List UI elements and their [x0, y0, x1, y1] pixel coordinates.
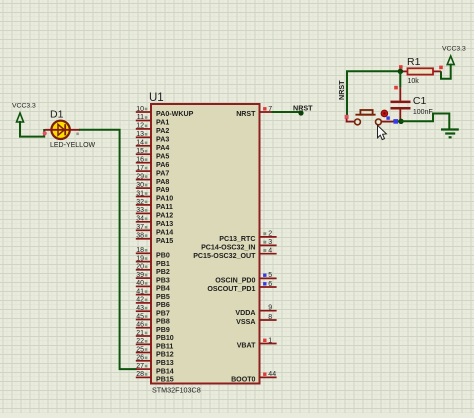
- svg-text:VCC3.3: VCC3.3: [12, 103, 36, 110]
- wire LED cathode to U1 PB14: [80, 130, 136, 369]
- mouse cursor: [378, 125, 387, 139]
- svg-text:PB7: PB7: [156, 309, 170, 317]
- svg-text:44: 44: [268, 371, 276, 378]
- svg-text:C1: C1: [413, 95, 427, 107]
- svg-text:PB3: PB3: [156, 276, 170, 284]
- U1 pin 31 PA10: [136, 190, 173, 202]
- svg-text:8: 8: [268, 314, 272, 321]
- U1 pin 9 VDDA: [235, 305, 276, 317]
- svg-text:37: 37: [136, 224, 144, 231]
- U1 pin 38 PA15: [136, 233, 173, 245]
- U1 pin 10 PA0-WKUP: [136, 106, 194, 118]
- svg-text:42: 42: [136, 297, 144, 304]
- power symbol VCC3.3 (right): [442, 45, 466, 64]
- wire button right terminal to junction: [381, 121, 393, 123]
- svg-text:VCC3.3: VCC3.3: [442, 45, 466, 52]
- svg-text:32: 32: [136, 199, 144, 206]
- svg-text:PB11: PB11: [156, 343, 173, 351]
- U1 pin 11 PA1: [136, 114, 170, 127]
- svg-text:PA2: PA2: [156, 127, 169, 135]
- svg-text:PA8: PA8: [156, 178, 169, 186]
- junction node C1 bottom: [398, 119, 403, 124]
- wire NRST from U1 pin 7: [272, 111, 302, 113]
- svg-text:43: 43: [136, 305, 144, 312]
- svg-text:PC15-OSC32_OUT: PC15-OSC32_OUT: [193, 252, 256, 260]
- svg-text:PB9: PB9: [156, 326, 170, 334]
- svg-text:PB14: PB14: [156, 367, 174, 375]
- wire junction to ground: [401, 114, 449, 129]
- resistor R1: [400, 68, 441, 74]
- U1 pin 41 PB5: [136, 288, 170, 300]
- svg-text:PA11: PA11: [156, 203, 173, 211]
- svg-text:11: 11: [137, 114, 144, 121]
- U1 pin 39 PB3: [136, 272, 170, 284]
- power symbol VCC3.3 (left): [12, 103, 36, 123]
- U1 pin 37 PA14: [136, 224, 173, 236]
- U1 pin 1 VBAT: [237, 337, 277, 349]
- U1 pin 8 VSSA: [236, 314, 276, 326]
- U1 pin 46 PB9: [136, 322, 170, 334]
- U1 pin 16 PA6: [136, 157, 170, 169]
- svg-text:D1: D1: [50, 109, 64, 121]
- wire VCC3.3 to R1: [441, 65, 451, 79]
- U1 pin 14 PA4: [136, 140, 170, 152]
- U1 pin 32 PA11: [136, 199, 173, 211]
- pin state square (blue) at C1 bottom junction: [393, 119, 398, 124]
- svg-text:10: 10: [136, 106, 144, 113]
- svg-text:19: 19: [136, 255, 144, 262]
- svg-text:31: 31: [136, 190, 144, 197]
- svg-text:PB12: PB12: [156, 351, 174, 359]
- svg-text:30: 30: [136, 182, 144, 189]
- svg-text:13: 13: [136, 131, 144, 138]
- svg-text:PB15: PB15: [156, 376, 174, 384]
- svg-text:29: 29: [136, 173, 144, 180]
- svg-text:12: 12: [136, 123, 144, 130]
- svg-text:18: 18: [136, 247, 144, 254]
- svg-text:STM32F103C8: STM32F103C8: [152, 386, 201, 395]
- U1 pin 34 PA13: [136, 216, 173, 228]
- U1 pin 27 PB14: [136, 363, 174, 375]
- svg-text:PA9: PA9: [156, 186, 169, 194]
- svg-text:PA0-WKUP: PA0-WKUP: [156, 110, 194, 118]
- U1 pin 6 OSCOUT_PD1: [207, 281, 276, 293]
- svg-text:3: 3: [268, 239, 272, 246]
- svg-text:39: 39: [136, 272, 144, 279]
- capacitor C1: [391, 87, 411, 119]
- svg-text:6: 6: [268, 281, 272, 288]
- svg-text:22: 22: [136, 338, 144, 345]
- pin state square (red) R1 left: [399, 65, 403, 69]
- svg-text:38: 38: [136, 233, 144, 240]
- svg-text:PB13: PB13: [156, 359, 174, 367]
- U1 pin 29 PA8: [136, 173, 170, 185]
- svg-text:2: 2: [268, 231, 272, 238]
- U1 pin 5 OSCIN_PD0: [215, 272, 276, 284]
- svg-text:34: 34: [136, 216, 144, 223]
- pin state square (pink) button left: [345, 115, 349, 119]
- svg-text:VBAT: VBAT: [237, 342, 256, 350]
- svg-text:PA5: PA5: [156, 152, 169, 160]
- svg-text:21: 21: [136, 330, 144, 337]
- button interactive knob (red): [381, 110, 388, 117]
- svg-text:PB5: PB5: [156, 293, 170, 301]
- U1 pin 18 PB0: [136, 247, 170, 259]
- svg-text:PB1: PB1: [156, 260, 170, 268]
- ground: [441, 130, 459, 138]
- U1 pin 4 PC15-OSC32_OUT: [193, 248, 276, 260]
- U1 pin 30 PA9: [136, 182, 170, 194]
- svg-text:BOOT0: BOOT0: [231, 376, 255, 384]
- svg-text:PB6: PB6: [156, 301, 170, 309]
- pin state square (red) R1 right: [439, 66, 443, 70]
- U1 pin 2 PC13_RTC: [219, 231, 276, 243]
- svg-text:NRST: NRST: [293, 104, 313, 113]
- svg-text:PC14-OSC32_IN: PC14-OSC32_IN: [201, 244, 255, 252]
- wire VCC3.3 to LED anode: [20, 122, 44, 137]
- U1 pin 26 PB13: [136, 355, 174, 367]
- op-amp U1 body STM32F103C8: [151, 104, 260, 384]
- U1 pin 20 PB2: [136, 264, 170, 276]
- svg-text:PB8: PB8: [156, 318, 170, 326]
- svg-text:PA6: PA6: [156, 161, 169, 169]
- U1 pin 19 PB1: [136, 255, 170, 267]
- pin state square (grey) at LED cathode: [76, 133, 79, 136]
- svg-text:PB0: PB0: [156, 252, 170, 260]
- svg-text:4: 4: [268, 248, 272, 255]
- svg-text:15: 15: [136, 148, 144, 155]
- svg-text:100nF: 100nF: [413, 109, 433, 116]
- svg-text:PA14: PA14: [156, 229, 173, 237]
- svg-text:28: 28: [136, 371, 144, 378]
- svg-text:27: 27: [136, 363, 144, 370]
- svg-text:1: 1: [268, 337, 272, 344]
- LED D1 (LED-YELLOW): [45, 121, 80, 139]
- svg-text:46: 46: [136, 322, 144, 329]
- push button (switch): [355, 110, 382, 125]
- svg-text:VSSA: VSSA: [236, 318, 255, 326]
- U1 pin 28 PB15: [136, 371, 174, 383]
- svg-text:PA7: PA7: [156, 169, 169, 177]
- svg-text:20: 20: [136, 264, 144, 271]
- svg-text:41: 41: [136, 288, 144, 295]
- U1 pin 7 NRST: [236, 106, 276, 118]
- pin state square (red) C1 top: [394, 86, 398, 90]
- U1 pin 12 PA2: [136, 123, 170, 135]
- svg-text:16: 16: [136, 157, 144, 164]
- svg-text:33: 33: [136, 207, 144, 214]
- svg-text:U1: U1: [149, 92, 164, 104]
- pin state square (blue) button knob: [386, 116, 389, 119]
- U1 pin 45 PB8: [136, 313, 170, 325]
- wire junction down to C1: [399, 71, 401, 87]
- U1 pin 40 PB4: [136, 280, 170, 292]
- svg-text:PA4: PA4: [156, 144, 169, 152]
- svg-text:PA3: PA3: [156, 136, 169, 144]
- U1 pin 44 BOOT0: [231, 371, 277, 383]
- wire NRST to button left terminal: [347, 119, 355, 122]
- svg-text:10k: 10k: [408, 78, 420, 85]
- svg-text:17: 17: [136, 165, 144, 172]
- svg-text:45: 45: [136, 313, 144, 320]
- svg-text:25: 25: [136, 346, 144, 353]
- node NRST (wire-end dot): [298, 110, 303, 115]
- U1 pin 25 PB12: [136, 346, 174, 358]
- svg-text:40: 40: [136, 280, 144, 287]
- U1 pin 17 PA7: [136, 165, 170, 177]
- svg-text:PB10: PB10: [156, 334, 174, 342]
- wire junction to NRST vertical: [347, 71, 400, 115]
- junction dot (pink) at LED anode corner: [43, 131, 47, 135]
- U1 pin 3 PC14-OSC32_IN: [201, 239, 277, 251]
- svg-text:26: 26: [136, 355, 144, 362]
- svg-text:PA15: PA15: [156, 237, 173, 245]
- U1 pin 21 PB10: [136, 330, 174, 342]
- svg-text:PB4: PB4: [156, 285, 170, 293]
- junction node at R1/C1/NRST: [398, 69, 403, 74]
- svg-text:PB2: PB2: [156, 268, 170, 276]
- U1 pin 42 PB6: [136, 297, 170, 309]
- svg-text:NRST: NRST: [236, 110, 256, 118]
- svg-text:R1: R1: [407, 56, 421, 68]
- svg-text:OSCIN_PD0: OSCIN_PD0: [215, 277, 255, 285]
- U1 pin 33 PA12: [136, 207, 173, 219]
- svg-text:VDDA: VDDA: [235, 309, 255, 317]
- U1 pin 22 PB11: [136, 338, 174, 350]
- svg-text:PA10: PA10: [156, 195, 173, 203]
- svg-text:NRST: NRST: [337, 80, 346, 100]
- svg-text:9: 9: [268, 305, 272, 312]
- svg-text:14: 14: [136, 140, 144, 147]
- U1 pin 15 PA5: [136, 148, 170, 160]
- U1 pin 43 PB7: [136, 305, 170, 317]
- svg-text:PA13: PA13: [156, 220, 173, 228]
- svg-text:PC13_RTC: PC13_RTC: [219, 235, 255, 243]
- svg-text:5: 5: [268, 272, 272, 279]
- svg-text:OSCOUT_PD1: OSCOUT_PD1: [207, 285, 255, 293]
- svg-text:PA1: PA1: [156, 119, 169, 127]
- svg-text:LED-YELLOW: LED-YELLOW: [50, 142, 96, 149]
- U1 pin 13 PA3: [136, 131, 170, 143]
- svg-text:PA12: PA12: [156, 212, 173, 220]
